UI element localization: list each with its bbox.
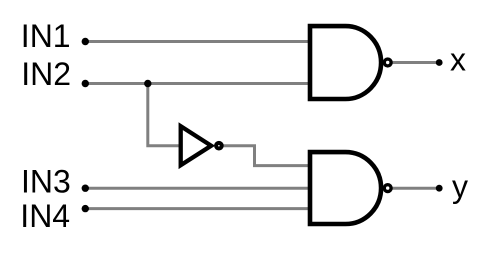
NAND gate U2 (310, 152, 381, 224)
node IN1 terminal (82, 38, 89, 45)
wire U2 output to y (391, 187, 439, 190)
node y terminal (436, 185, 443, 192)
NAND gate U1 (310, 26, 381, 99)
svg-text:y: y (452, 168, 468, 204)
svg-text:IN1: IN1 (21, 18, 71, 54)
wire inverter U3 output to U2 pin 1 (222, 146, 311, 166)
wire IN1 to U1 pin 1 (85, 40, 311, 43)
wire IN3 to U2 pin 2 (85, 187, 311, 190)
inverter U3 (181, 126, 212, 165)
node x terminal (436, 59, 443, 66)
svg-text:IN2: IN2 (21, 56, 71, 92)
wire IN2 to U1 pin 2 (85, 82, 311, 85)
node IN2 terminal (82, 80, 89, 87)
svg-text:x: x (450, 42, 466, 78)
wire U1 output to x (391, 61, 439, 64)
svg-text:IN4: IN4 (20, 198, 70, 234)
wire IN4 to U2 pin 3 (85, 207, 311, 210)
junction on IN2 net (144, 80, 151, 87)
inverter U3 bubble (216, 143, 222, 149)
NAND gate U1 bubble (384, 59, 391, 66)
svg-text:IN3: IN3 (21, 163, 71, 199)
node IN3 terminal (82, 185, 89, 192)
wire IN2 branch down to inverter U3 input (148, 84, 182, 146)
NAND gate U2 bubble (384, 185, 391, 192)
node IN4 terminal (82, 205, 89, 212)
